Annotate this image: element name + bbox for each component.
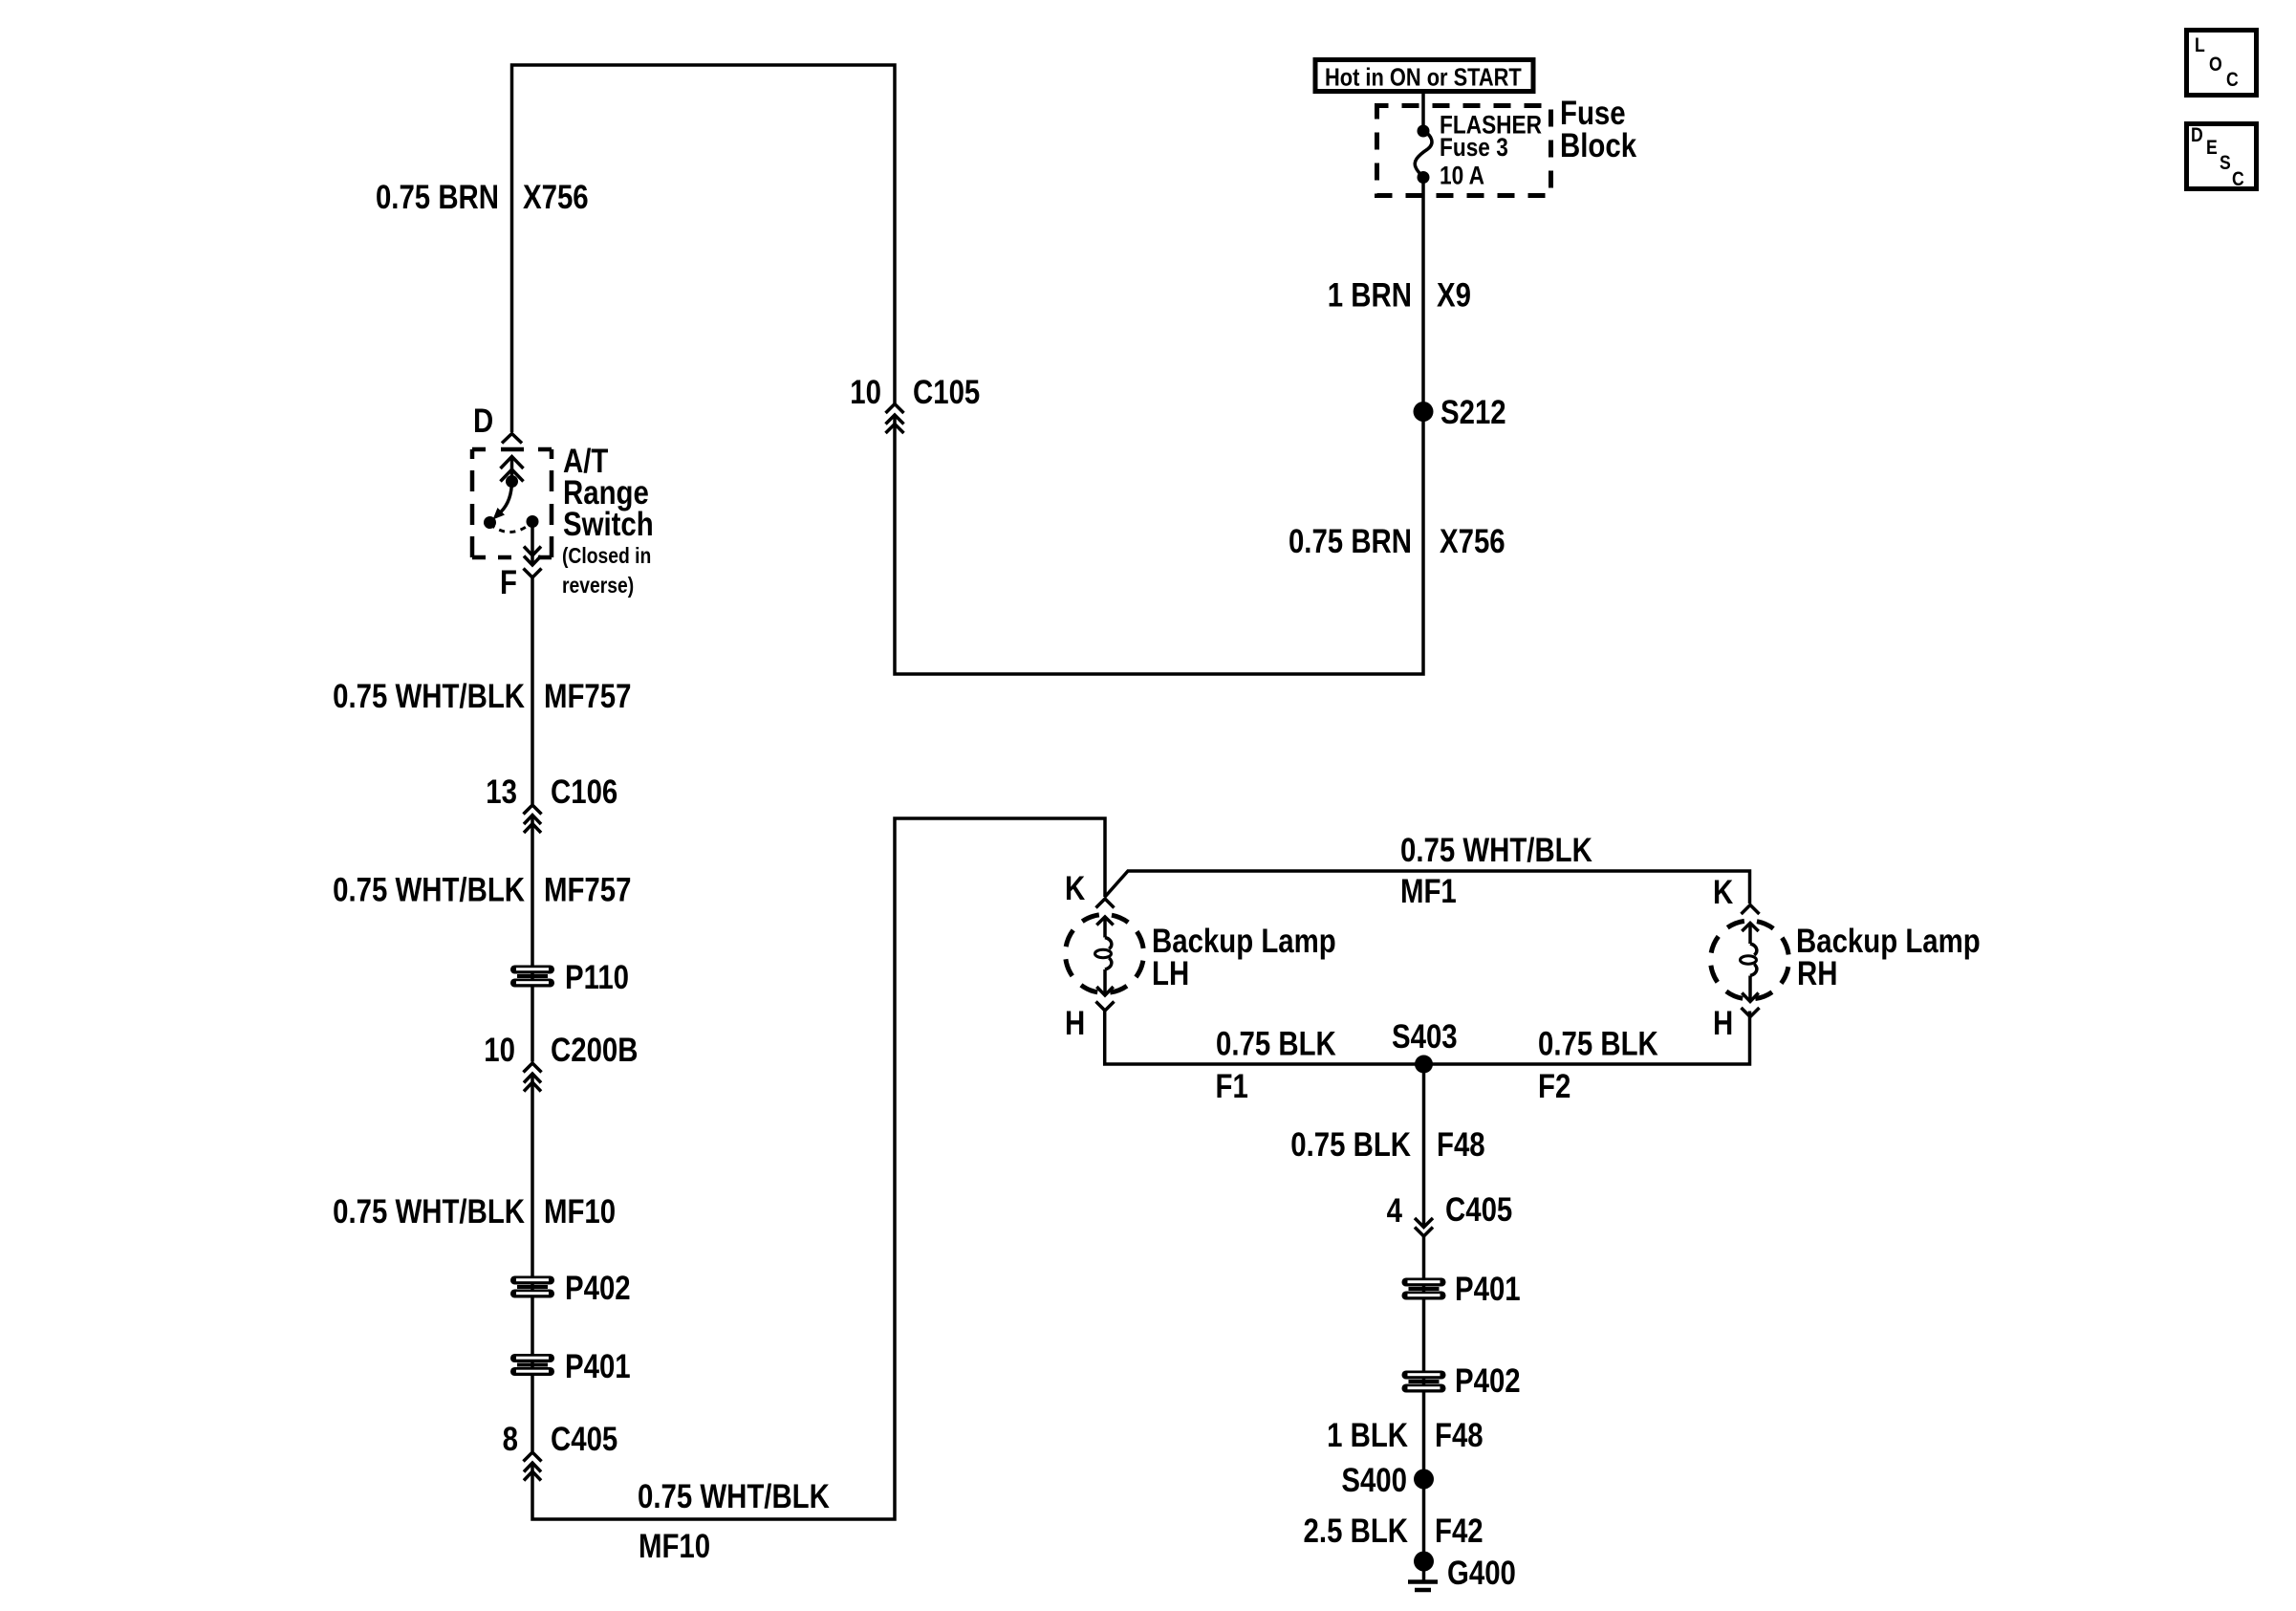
svg-text:13: 13 (486, 773, 517, 811)
svg-text:0.75 BRN: 0.75 BRN (1289, 523, 1412, 560)
svg-text:E: E (2206, 137, 2218, 160)
svg-text:C106: C106 (551, 773, 617, 811)
svg-text:0.75 WHT/BLK: 0.75 WHT/BLK (333, 1193, 525, 1230)
svg-text:C: C (2232, 168, 2244, 191)
svg-text:D: D (2191, 124, 2203, 147)
svg-text:LH: LH (1152, 955, 1189, 992)
svg-text:F42: F42 (1435, 1513, 1484, 1550)
svg-text:8: 8 (503, 1421, 518, 1458)
svg-text:MF757: MF757 (544, 678, 631, 715)
svg-text:RH: RH (1797, 955, 1837, 992)
svg-text:K: K (1065, 870, 1086, 907)
svg-text:F48: F48 (1437, 1126, 1485, 1164)
svg-text:MF757: MF757 (544, 871, 631, 908)
svg-text:0.75 WHT/BLK: 0.75 WHT/BLK (638, 1478, 830, 1515)
svg-text:1 BLK: 1 BLK (1327, 1417, 1409, 1454)
svg-text:10 A: 10 A (1440, 162, 1484, 190)
svg-text:Fuse 3: Fuse 3 (1440, 133, 1508, 162)
svg-text:F1: F1 (1216, 1068, 1248, 1105)
svg-text:10: 10 (484, 1032, 515, 1069)
svg-text:Switch: Switch (563, 506, 654, 543)
svg-text:L: L (2195, 34, 2205, 57)
svg-text:MF10: MF10 (544, 1193, 616, 1230)
svg-text:C: C (2226, 69, 2239, 92)
svg-text:F48: F48 (1435, 1417, 1484, 1454)
svg-text:0.75 BLK: 0.75 BLK (1538, 1025, 1658, 1062)
svg-text:D: D (473, 403, 493, 440)
svg-text:F: F (500, 564, 517, 601)
svg-text:P401: P401 (565, 1348, 631, 1385)
svg-text:reverse): reverse) (562, 575, 634, 599)
svg-text:4: 4 (1387, 1192, 1402, 1230)
svg-text:S: S (2220, 152, 2231, 175)
svg-text:0.75 BLK: 0.75 BLK (1216, 1025, 1336, 1062)
svg-text:0.75 BRN: 0.75 BRN (376, 179, 499, 216)
svg-text:0.75 WHT/BLK: 0.75 WHT/BLK (1400, 832, 1592, 869)
svg-text:0.75 BLK: 0.75 BLK (1290, 1126, 1411, 1164)
svg-text:H: H (1065, 1005, 1085, 1042)
svg-text:C405: C405 (551, 1421, 617, 1458)
svg-text:MF10: MF10 (639, 1528, 710, 1565)
svg-text:O: O (2209, 54, 2222, 76)
svg-text:C105: C105 (913, 374, 980, 411)
svg-text:Block: Block (1560, 127, 1636, 164)
svg-text:F2: F2 (1538, 1068, 1570, 1105)
svg-text:P402: P402 (1455, 1362, 1521, 1400)
svg-text:X756: X756 (523, 179, 589, 216)
svg-text:MF1: MF1 (1400, 873, 1457, 910)
svg-text:S400: S400 (1341, 1462, 1407, 1499)
svg-text:P110: P110 (565, 959, 629, 996)
svg-text:H: H (1713, 1005, 1733, 1042)
svg-text:2.5 BLK: 2.5 BLK (1304, 1513, 1409, 1550)
svg-text:C200B: C200B (551, 1032, 639, 1069)
svg-text:C405: C405 (1445, 1191, 1512, 1229)
svg-text:X756: X756 (1440, 523, 1505, 560)
svg-text:Hot in ON or START: Hot in ON or START (1325, 64, 1522, 92)
svg-text:P401: P401 (1455, 1271, 1521, 1308)
svg-text:(Closed in: (Closed in (562, 545, 651, 569)
svg-text:P402: P402 (565, 1270, 631, 1307)
svg-text:K: K (1713, 874, 1734, 911)
svg-text:S403: S403 (1392, 1018, 1458, 1056)
svg-text:1 BRN: 1 BRN (1328, 276, 1412, 314)
svg-text:10: 10 (850, 374, 881, 411)
svg-text:0.75 WHT/BLK: 0.75 WHT/BLK (333, 678, 525, 715)
svg-text:0.75 WHT/BLK: 0.75 WHT/BLK (333, 871, 525, 908)
svg-text:S212: S212 (1440, 394, 1506, 431)
svg-text:X9: X9 (1437, 276, 1471, 314)
svg-text:G400: G400 (1447, 1555, 1516, 1592)
